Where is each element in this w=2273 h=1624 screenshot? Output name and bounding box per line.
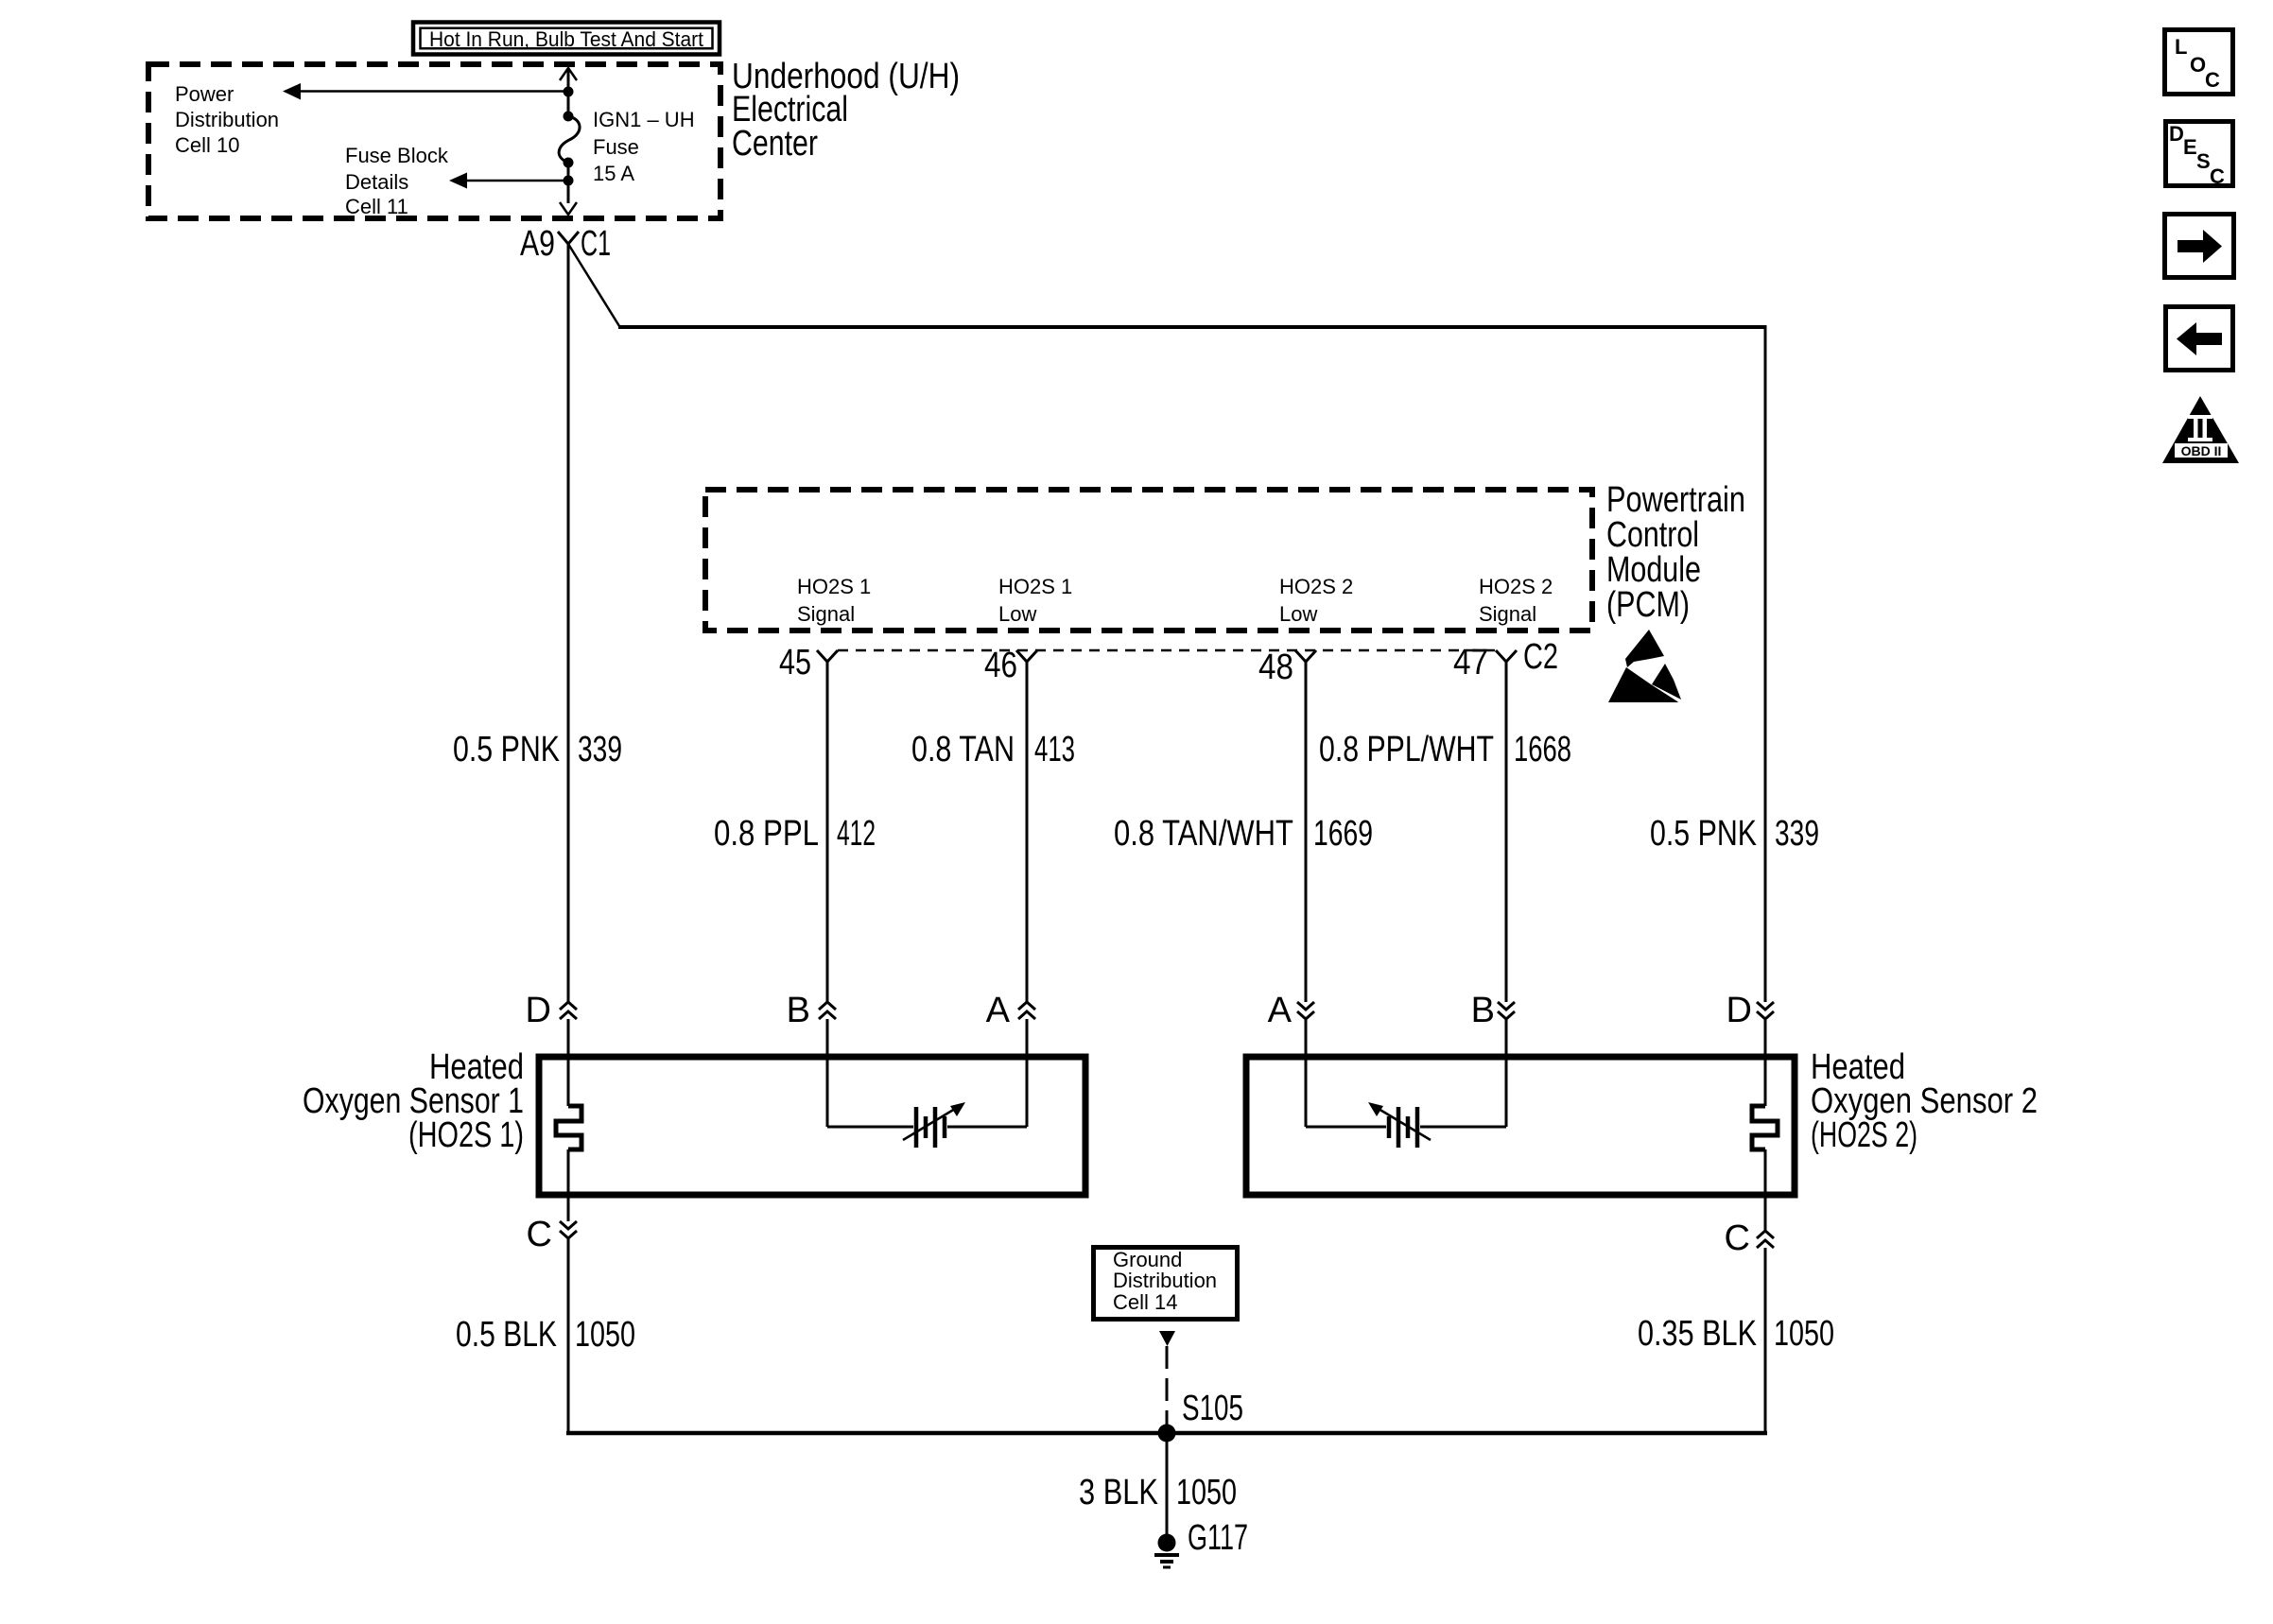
ground bus wire xyxy=(566,1431,1767,1436)
wire 0.8 PPL 412 (pin 45 to HO2S1 B) xyxy=(826,662,829,1002)
svg-text:Distribution: Distribution xyxy=(175,108,279,131)
sensor element (variable cell) HO2S1 xyxy=(827,1102,1027,1148)
svg-text:0.35 BLK: 0.35 BLK xyxy=(1638,1314,1757,1354)
svg-text:412: 412 xyxy=(837,814,876,854)
wire: ignition feed from hot bus (up arrow) xyxy=(560,68,577,92)
svg-text:A: A xyxy=(986,991,1011,1030)
svg-text:HO2S 2: HO2S 2 xyxy=(1479,575,1553,598)
svg-text:Fuse: Fuse xyxy=(593,135,639,159)
svg-text:0.5 PNK: 0.5 PNK xyxy=(1650,814,1757,854)
svg-text:1669: 1669 xyxy=(1313,814,1373,854)
label Power Distribution Cell 10 xyxy=(175,82,279,157)
svg-text:3 BLK: 3 BLK xyxy=(1079,1473,1158,1512)
svg-text:48: 48 xyxy=(1258,648,1293,687)
svg-text:A: A xyxy=(1268,991,1293,1030)
label Heated Oxygen Sensor 2 (HO2S 2) xyxy=(1811,1047,2038,1155)
svg-text:46: 46 xyxy=(984,646,1017,685)
label 0.8 PPL/WHT 1668 xyxy=(1319,730,1571,769)
ground G117 xyxy=(1154,1518,1248,1567)
svg-text:Low: Low xyxy=(1279,602,1317,626)
wire 0.8 TAN 413 (pin 46 to HO2S1 A) xyxy=(1026,662,1029,1002)
bus label box Hot In Run, Bulb Test And Start xyxy=(413,23,720,55)
connector A (HO2S2) down chevrons xyxy=(1268,991,1314,1030)
ESD sensitive symbol xyxy=(1608,630,1681,702)
fuse IGN1-UH 15 A xyxy=(559,112,580,168)
wire heater to C (HO2S1) xyxy=(567,1149,570,1221)
svg-text:Center: Center xyxy=(732,124,818,164)
svg-text:B: B xyxy=(787,991,810,1030)
wire diagonal and top run to right side xyxy=(568,244,1765,327)
svg-text:Power: Power xyxy=(175,82,234,106)
svg-text:1668: 1668 xyxy=(1514,730,1571,769)
wire fuse to fuse-block tap xyxy=(567,163,570,181)
svg-text:0.8 TAN: 0.8 TAN xyxy=(911,730,1015,769)
svg-text:Fuse Block: Fuse Block xyxy=(345,144,449,167)
svg-text:OBD II: OBD II xyxy=(2181,443,2222,458)
label Underhood (U/H) Electrical Center xyxy=(732,57,960,164)
pin 46 HO2S 1 Low xyxy=(984,575,1072,685)
wire 0.5 BLK 1050 (left) xyxy=(567,1238,570,1435)
svg-text:HO2S 2: HO2S 2 xyxy=(1279,575,1353,598)
label 0.8 TAN/WHT 1669 xyxy=(1114,814,1373,854)
svg-text:C: C xyxy=(2205,68,2220,92)
wires resuming below top chevrons into sensor boxes xyxy=(568,1019,1765,1127)
wire heater to C (HO2S2) xyxy=(1764,1149,1767,1231)
svg-text:C1: C1 xyxy=(581,224,611,264)
Heated Oxygen Sensor 1 box xyxy=(539,1057,1085,1195)
svg-text:Control: Control xyxy=(1606,515,1699,555)
svg-text:Cell 11: Cell 11 xyxy=(345,195,408,218)
svg-text:Low: Low xyxy=(998,602,1036,626)
svg-text:0.5 BLK: 0.5 BLK xyxy=(456,1315,557,1355)
connector B (HO2S1) up chevrons xyxy=(787,991,836,1030)
svg-text:G117: G117 xyxy=(1188,1518,1248,1558)
label 0.5 BLK 1050 xyxy=(456,1315,635,1355)
svg-text:0.8 TAN/WHT: 0.8 TAN/WHT xyxy=(1114,814,1293,854)
sensor element (variable cell) HO2S2 xyxy=(1306,1102,1506,1148)
svg-text:C: C xyxy=(527,1215,552,1254)
Underhood (U/H) Electrical Center dashed box xyxy=(148,64,720,218)
svg-text:C2: C2 xyxy=(1523,637,1558,677)
svg-text:A9: A9 xyxy=(520,224,555,264)
wire 0.8 TAN/WHT 1669 (pin 48 to HO2S2 A) xyxy=(1305,662,1308,1002)
pin 48 HO2S 2 Low xyxy=(1258,575,1353,687)
svg-text:45: 45 xyxy=(779,643,811,682)
svg-text:Signal: Signal xyxy=(1479,602,1536,626)
splice S105 xyxy=(1158,1389,1244,1443)
svg-text:339: 339 xyxy=(578,730,622,769)
svg-text:(HO2S 2): (HO2S 2) xyxy=(1811,1115,1917,1155)
svg-text:Cell 10: Cell 10 xyxy=(175,133,239,157)
svg-text:E: E xyxy=(2183,135,2197,159)
connector A (HO2S1) up chevrons xyxy=(986,991,1035,1030)
svg-text:(PCM): (PCM) xyxy=(1606,585,1690,625)
Ground Distribution Cell 14 box xyxy=(1094,1248,1238,1320)
svg-text:C: C xyxy=(2210,164,2225,188)
svg-text:(HO2S 1): (HO2S 1) xyxy=(408,1115,524,1155)
Heated Oxygen Sensor 2 box xyxy=(1246,1057,1795,1195)
arrow from Ground Distribution box xyxy=(1159,1331,1175,1346)
label 3 BLK 1050 xyxy=(1079,1473,1237,1512)
svg-text:Details: Details xyxy=(345,170,408,194)
svg-text:1050: 1050 xyxy=(1176,1473,1237,1512)
pin 45 HO2S 1 Signal xyxy=(779,575,871,682)
svg-text:0.5 PNK: 0.5 PNK xyxy=(453,730,560,769)
label 0.5 PNK 339 (right) xyxy=(1650,814,1819,854)
heater element HO2S2 xyxy=(1752,1106,1778,1149)
icon DESC box xyxy=(2166,122,2233,189)
connector D (HO2S2) down chevrons xyxy=(1726,991,1774,1030)
svg-text:0.8 PPL/WHT: 0.8 PPL/WHT xyxy=(1319,730,1494,769)
svg-text:0.8 PPL: 0.8 PPL xyxy=(714,814,819,854)
svg-text:413: 413 xyxy=(1034,730,1075,769)
label 0.8 TAN 413 xyxy=(911,730,1075,769)
dashed wire to splice S105 xyxy=(1166,1346,1169,1425)
svg-text:1050: 1050 xyxy=(575,1315,635,1355)
icon OBD II triangle xyxy=(2162,396,2239,463)
svg-text:HO2S 1: HO2S 1 xyxy=(797,575,871,598)
svg-text:339: 339 xyxy=(1775,814,1819,854)
svg-text:Module: Module xyxy=(1606,550,1701,590)
svg-text:C: C xyxy=(1725,1218,1750,1258)
connector B (HO2S2) down chevrons xyxy=(1471,991,1515,1030)
wire 0.8 PPL/WHT 1668 (pin 47 to HO2S2 B) xyxy=(1505,662,1508,1002)
wire 0.35 BLK 1050 (right) xyxy=(1764,1248,1767,1435)
label 0.5 PNK 339 (left) xyxy=(453,730,622,769)
arrow to Power Distribution xyxy=(283,83,568,100)
svg-text:47: 47 xyxy=(1453,643,1488,682)
svg-text:S: S xyxy=(2196,149,2211,173)
svg-text:1050: 1050 xyxy=(1774,1314,1834,1354)
label 0.8 PPL 412 xyxy=(714,814,876,854)
wire 3 BLK 1050 xyxy=(1166,1433,1169,1537)
svg-text:Powertrain: Powertrain xyxy=(1606,480,1745,520)
svg-text:IGN1 – UH: IGN1 – UH xyxy=(593,108,695,131)
icon LOC box xyxy=(2165,30,2233,95)
connector C (HO2S1) down chevrons xyxy=(527,1215,577,1254)
pin 47 HO2S 2 Signal / connector C2 xyxy=(1453,575,1558,682)
svg-text:D: D xyxy=(2169,122,2184,146)
svg-text:B: B xyxy=(1471,991,1495,1030)
label IGN1 - UH Fuse 15 A xyxy=(593,108,695,185)
svg-text:O: O xyxy=(2190,53,2206,77)
PCM connector face dashed line (C2) xyxy=(838,649,1496,652)
label 0.35 BLK 1050 xyxy=(1638,1314,1834,1354)
wire 0.5 PNK 339 (left vertical to HO2S1 D) xyxy=(567,244,570,1002)
junction dot (power distribution tap) xyxy=(564,87,574,97)
label Heated Oxygen Sensor 1 (HO2S 1) xyxy=(303,1047,524,1155)
svg-text:Hot In Run, Bulb Test And Star: Hot In Run, Bulb Test And Start xyxy=(429,27,703,51)
heater element HO2S1 xyxy=(556,1106,581,1149)
svg-text:Signal: Signal xyxy=(797,602,855,626)
wire to connector C1 (down arrow) xyxy=(560,181,577,215)
svg-text:D: D xyxy=(526,991,551,1030)
wire from tap to fuse xyxy=(567,92,570,116)
svg-text:15 A: 15 A xyxy=(593,162,634,185)
svg-text:L: L xyxy=(2175,35,2187,59)
label Fuse Block Details Cell 11 xyxy=(345,144,449,218)
svg-text:Distribution: Distribution xyxy=(1113,1269,1217,1292)
svg-text:HO2S 1: HO2S 1 xyxy=(998,575,1072,598)
connector D (HO2S1) up chevrons xyxy=(526,991,577,1030)
svg-text:Cell 14: Cell 14 xyxy=(1113,1290,1177,1314)
arrow to Fuse Block Details xyxy=(449,173,568,189)
icon forward arrow box xyxy=(2165,215,2234,278)
svg-text:S105: S105 xyxy=(1182,1389,1243,1428)
connector A9 / C1 xyxy=(520,224,611,264)
svg-text:D: D xyxy=(1726,991,1752,1030)
junction dot (fuse block details tap) xyxy=(564,176,574,186)
icon back arrow box xyxy=(2166,307,2233,371)
PCM dashed box xyxy=(705,490,1592,631)
label Powertrain Control Module (PCM) xyxy=(1606,480,1745,625)
connector C (HO2S2) up chevrons xyxy=(1725,1218,1774,1258)
wire 0.5 PNK 339 (right vertical to HO2S2 D) xyxy=(1764,325,1767,1002)
